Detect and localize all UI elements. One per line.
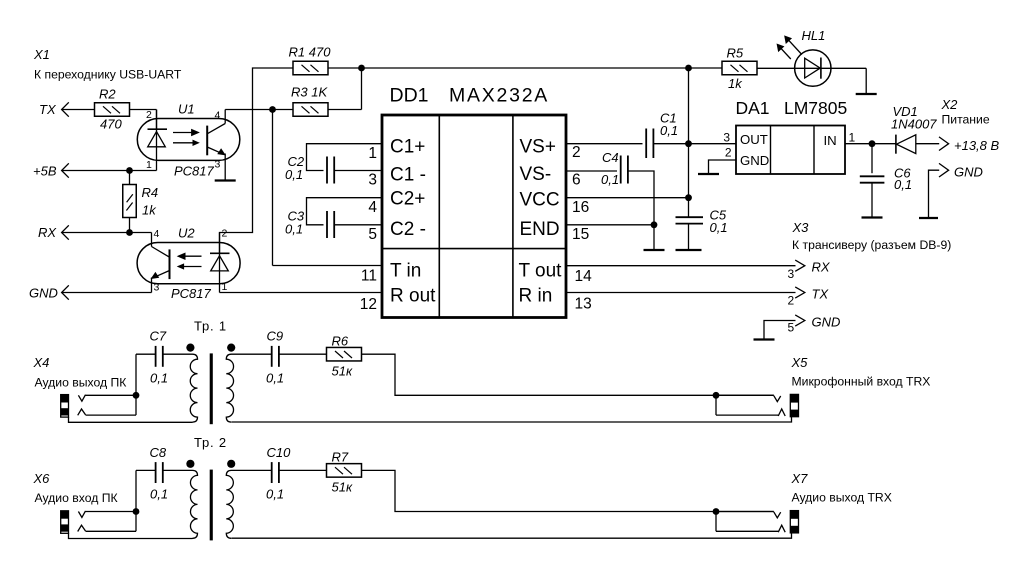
C1 value	[660, 123, 678, 138]
svg-text:Аудио вход ПК: Аудио вход ПК	[35, 491, 119, 505]
wire R5 to HL1	[757, 67, 866, 69]
X5 description	[792, 375, 931, 389]
resistor R7	[327, 464, 362, 478]
svg-text:VS-: VS-	[520, 164, 552, 185]
wire U1 pin4 to R3	[225, 109, 293, 111]
LED HL1	[795, 50, 831, 86]
svg-text:1: 1	[368, 145, 377, 162]
node GND arrow	[62, 285, 69, 299]
wire C3 to DD1 pin5	[334, 224, 381, 226]
svg-text:C4: C4	[602, 150, 619, 165]
svg-text:0,1: 0,1	[150, 371, 168, 386]
svg-text:Питание: Питание	[942, 113, 990, 127]
wire R1 junction down to R3	[328, 68, 362, 110]
U2 pin4 number	[154, 228, 160, 240]
svg-text:U2: U2	[178, 226, 195, 241]
wire DD1 pin6 to C4	[566, 170, 617, 172]
optocoupler U1 body	[137, 119, 240, 161]
DD1 pin12 number	[360, 296, 377, 313]
svg-text:TX: TX	[39, 102, 57, 117]
svg-text:X1: X1	[33, 47, 50, 62]
connector X1 label	[33, 47, 50, 62]
node R3 left junction	[269, 106, 276, 113]
svg-text:Тр. 1: Тр. 1	[194, 319, 227, 334]
wire R1 left to U2 pin2	[220, 68, 294, 253]
DD1 pin6 number	[572, 172, 581, 189]
wire jack to C7	[136, 354, 156, 395]
capacitor C3	[327, 211, 334, 238]
svg-text:0,1: 0,1	[150, 487, 168, 502]
R3 label	[291, 85, 328, 100]
C5 value	[710, 220, 728, 235]
transformer Тр. 1 primary	[163, 354, 198, 422]
svg-text:GND: GND	[954, 165, 983, 180]
IC DA1 title	[736, 98, 848, 118]
node R1-R3 junction	[358, 65, 365, 72]
wire jack to C8	[136, 470, 156, 511]
wire C10 to R7	[279, 469, 327, 471]
DA1 pin1 number	[849, 131, 856, 145]
svg-text:X3: X3	[792, 220, 810, 235]
DD1 pin5 number	[368, 226, 377, 243]
DD1 pin2 number	[572, 144, 581, 161]
resistor R1	[293, 61, 328, 75]
R5 label	[727, 46, 744, 61]
transformer Тр. 2 secondary	[226, 470, 271, 538]
wire DD1 pin16 to VCC node	[566, 197, 689, 199]
svg-text:470: 470	[100, 117, 122, 132]
resistor R2	[95, 103, 130, 117]
R1 label	[289, 45, 332, 60]
node X3 RX arrow	[795, 260, 805, 271]
capacitor C8	[156, 462, 163, 483]
connector X3 label	[792, 220, 810, 235]
DA1 pin2 number	[725, 146, 732, 160]
DD1 pin3 number	[368, 172, 377, 189]
wire C4 to END node	[628, 171, 654, 225]
wire RX to U2 pin4	[62, 233, 152, 247]
wire C2 to DD1 pin3	[334, 170, 381, 172]
svg-text:DD1: DD1	[390, 85, 429, 107]
svg-text:Аудио выход ПК: Аудио выход ПК	[35, 375, 128, 389]
X6 description	[35, 491, 119, 505]
VD1 value 1N4007	[891, 117, 937, 132]
resistor R6	[327, 347, 362, 361]
DD1 label T in	[390, 261, 421, 282]
R2 label	[99, 87, 116, 102]
svg-text:T in: T in	[390, 261, 421, 282]
svg-text:C8: C8	[150, 445, 167, 460]
X2 GND wire	[919, 170, 939, 218]
svg-text:2: 2	[788, 294, 795, 308]
ground under C4	[644, 225, 665, 250]
svg-text:6: 6	[572, 172, 581, 189]
svg-text:R out: R out	[390, 286, 436, 307]
HL1 light arrows	[777, 36, 802, 59]
svg-text:HL1: HL1	[802, 28, 826, 43]
svg-text:GND: GND	[29, 286, 58, 301]
DD1 label C1-	[390, 165, 426, 186]
svg-text:PC817: PC817	[174, 164, 215, 179]
svg-text:3: 3	[788, 267, 795, 281]
X3 GND pin5	[788, 321, 795, 335]
node +5B R4 junction	[126, 167, 133, 174]
R6 label	[332, 334, 349, 349]
node X3 TX arrow	[795, 287, 805, 298]
Тр. 2 core	[210, 470, 213, 541]
svg-text:MAX232A: MAX232A	[449, 85, 549, 107]
DD1 label VS-	[520, 164, 552, 185]
svg-text:1: 1	[146, 159, 152, 171]
svg-text:14: 14	[575, 268, 593, 285]
DD1 pin14 number	[575, 268, 593, 285]
svg-text:X6: X6	[33, 471, 51, 486]
U1 PC817 label	[174, 164, 215, 179]
DD1 pin4 number	[368, 199, 377, 216]
svg-text:5: 5	[368, 226, 377, 243]
R6 value	[332, 364, 353, 379]
svg-text:15: 15	[572, 226, 589, 243]
RX label	[38, 225, 57, 240]
wire DD1 pin13 to X3 TX	[566, 292, 796, 294]
Тр. 2 secondary dot	[227, 460, 235, 468]
svg-text:16: 16	[572, 199, 589, 216]
U1 pin3 number	[215, 159, 221, 171]
capacitor C4	[621, 156, 628, 184]
+13.8V label	[954, 138, 1000, 153]
svg-text:R in: R in	[519, 286, 553, 307]
node X4 tip junction	[133, 392, 140, 399]
ground under U1 pin3	[215, 179, 236, 181]
C4 value	[601, 172, 619, 187]
svg-text:VS+: VS+	[520, 137, 556, 158]
diode VD1	[896, 135, 939, 154]
C2 value	[285, 167, 303, 182]
svg-text:0,1: 0,1	[285, 222, 303, 237]
wire DD1 pin4 elbow	[307, 198, 382, 225]
svg-text:T out: T out	[519, 261, 563, 282]
resistor R5	[722, 61, 757, 75]
svg-text:RX: RX	[38, 225, 57, 240]
Тр. 1 secondary dot	[227, 344, 235, 352]
X4 description	[35, 375, 128, 389]
svg-text:1N4007: 1N4007	[891, 117, 937, 132]
svg-text:2: 2	[572, 144, 581, 161]
svg-text:OUT: OUT	[740, 132, 768, 147]
svg-text:LM7805: LM7805	[784, 98, 847, 118]
DA1 GND pin wire	[698, 160, 736, 174]
U1 LED	[148, 110, 168, 171]
svg-text:RX: RX	[812, 260, 831, 275]
C3 value	[285, 222, 303, 237]
C1 label	[660, 111, 677, 126]
svg-text:51к: 51к	[332, 480, 353, 495]
svg-text:0,1: 0,1	[601, 172, 619, 187]
IC DD1 title	[390, 85, 550, 107]
X3 TX label	[812, 287, 830, 302]
svg-text:R6: R6	[332, 334, 349, 349]
X2 GND label	[954, 165, 983, 180]
X7 description	[792, 490, 892, 504]
wire DD1 pin1 elbow	[307, 144, 382, 171]
wire C9 to R6	[279, 353, 327, 355]
wire DD1 pin15 END	[566, 224, 654, 226]
svg-text:0,1: 0,1	[660, 123, 678, 138]
capacitor C1	[646, 129, 653, 159]
wire +5B to U1 pin1	[62, 170, 157, 172]
U1 pin1 number	[146, 159, 152, 171]
DA1 label GND	[740, 153, 769, 168]
svg-text:1: 1	[849, 131, 856, 145]
svg-text:+5B: +5B	[33, 164, 57, 179]
resistor R3	[293, 103, 328, 117]
DD1 pin13 number	[575, 296, 592, 313]
svg-text:X7: X7	[791, 471, 809, 486]
node +5B arrow	[62, 163, 69, 177]
U2 phototransistor	[152, 247, 170, 293]
IC DA1 body	[736, 126, 845, 175]
DD1 label VCC	[520, 190, 560, 211]
capacitor C6	[860, 144, 885, 218]
svg-text:PC817: PC817	[171, 286, 212, 301]
X3 description	[792, 238, 951, 252]
capacitor C7	[156, 346, 163, 367]
connector X6 label	[33, 471, 51, 486]
wire VCC vertical	[688, 68, 690, 217]
svg-text:X4: X4	[33, 355, 50, 370]
wire R2 to U1 pin2	[130, 110, 157, 130]
node TX arrow	[62, 102, 69, 116]
optocoupler U2 body	[137, 243, 240, 284]
svg-text:0,1: 0,1	[266, 487, 284, 502]
C6 label	[894, 166, 911, 181]
connector X4 label	[33, 355, 50, 370]
DD1 label VS+	[520, 137, 556, 158]
DD1 pin11 number	[361, 268, 377, 285]
GND label	[29, 286, 58, 301]
U2 pin1 number	[222, 281, 228, 293]
X3 RX label	[812, 260, 831, 275]
svg-text:2: 2	[222, 228, 228, 240]
U1 light arrows	[173, 130, 199, 146]
C10 label	[267, 445, 292, 460]
svg-text:1k: 1k	[728, 76, 743, 91]
wire C1 to DA1 OUT	[653, 143, 736, 145]
transformer Тр. 1 secondary	[226, 354, 271, 422]
node R5 branch junction	[685, 65, 692, 72]
X2 description	[942, 113, 990, 127]
svg-text:R1 470: R1 470	[289, 45, 332, 60]
node VCC junction	[685, 194, 692, 201]
svg-text:C9: C9	[267, 329, 284, 344]
C9 value	[266, 371, 284, 386]
svg-text:R3 1K: R3 1K	[291, 85, 328, 100]
svg-text:C1 -: C1 -	[390, 165, 426, 186]
U2 light arrows	[178, 253, 202, 269]
node VS+ junction	[685, 140, 692, 147]
svg-text:13: 13	[575, 296, 592, 313]
node END junction	[651, 221, 658, 228]
VD1 label	[893, 104, 918, 119]
ground after HL1	[856, 68, 877, 94]
C2 label	[288, 154, 305, 169]
wire R1 right	[328, 67, 722, 69]
node +13.8V arrow	[939, 137, 949, 151]
C9 label	[267, 329, 284, 344]
svg-text:DA1: DA1	[736, 98, 770, 118]
capacitor C5	[676, 217, 704, 223]
svg-text:C2 -: C2 -	[390, 219, 426, 240]
svg-text:4: 4	[154, 228, 160, 240]
wire DA1 IN to VD1	[845, 143, 896, 145]
capacitor C9	[272, 346, 279, 367]
Тр. 1 primary dot	[186, 344, 194, 352]
C4 label	[602, 150, 619, 165]
U1 label	[178, 102, 195, 117]
ground under C6	[862, 216, 883, 218]
U2 LED	[210, 233, 230, 293]
svg-text:0,1: 0,1	[285, 167, 303, 182]
node X5 tip junction	[713, 392, 720, 399]
X3 TX pin2	[788, 294, 795, 308]
wire R7 to jack	[362, 470, 774, 511]
transformer Тр. 2 primary	[163, 470, 198, 538]
R2 value 470	[100, 117, 122, 132]
Тр. 1 core	[210, 353, 213, 424]
DA1 pin3 number	[723, 131, 730, 145]
resistor R4	[123, 171, 137, 233]
C10 value	[266, 487, 284, 502]
svg-text:К переходнику USB-UART: К переходнику USB-UART	[34, 68, 182, 82]
DD1 pin15 number	[572, 226, 589, 243]
node X7 tip junction	[713, 508, 720, 515]
wire junction to DD1 pin11	[273, 110, 382, 266]
U1 pin4 number	[215, 110, 221, 122]
R4 value 1k	[142, 203, 157, 218]
DD1 label C2+	[390, 189, 425, 210]
wire U2 pin1 to DD1 pin12	[220, 292, 382, 294]
DD1 pin1 number	[368, 145, 377, 162]
svg-text:4: 4	[368, 199, 377, 216]
U1 phototransistor	[207, 110, 225, 181]
svg-text:Аудио выход TRX: Аудио выход TRX	[792, 490, 892, 504]
capacitor C2	[327, 157, 334, 184]
svg-text:4: 4	[215, 110, 221, 122]
node X3 GND arrow	[795, 315, 805, 326]
Тр. 1 label	[194, 319, 227, 334]
DA1 label IN	[824, 133, 837, 148]
X3 GND wire	[754, 321, 796, 340]
svg-text:TX: TX	[812, 287, 830, 302]
C3 label	[288, 209, 305, 224]
wire GND to U2 pin3	[62, 292, 152, 294]
C8 value	[150, 487, 168, 502]
HL1 label	[802, 28, 826, 43]
node RX R4 junction	[126, 229, 133, 236]
svg-text:R7: R7	[332, 450, 349, 465]
svg-text:Тр. 2: Тр. 2	[194, 435, 227, 450]
node IN junction	[869, 140, 876, 147]
X3 RX pin3	[788, 267, 795, 281]
X1 description	[34, 68, 182, 82]
svg-text:12: 12	[360, 296, 377, 313]
+5B label	[33, 164, 57, 179]
C8 label	[150, 445, 167, 460]
wire TX to R2	[62, 109, 95, 111]
U1 pin2 number	[146, 109, 152, 121]
connector X6 jack	[61, 511, 193, 539]
U2 PC817 label	[171, 286, 212, 301]
svg-text:1: 1	[222, 281, 228, 293]
svg-text:11: 11	[361, 268, 377, 285]
wire DD1 pin14 to X3 RX	[566, 265, 796, 267]
U2 pin3 number	[154, 282, 160, 294]
svg-text:+13,8 В: +13,8 В	[954, 138, 1000, 153]
R7 value	[332, 480, 353, 495]
svg-text:U1: U1	[178, 102, 195, 117]
C6 value	[894, 177, 912, 192]
DD1 label R in	[519, 286, 553, 307]
svg-text:1k: 1k	[142, 203, 157, 218]
R5 value 1k	[728, 76, 743, 91]
svg-text:3: 3	[215, 159, 221, 171]
svg-text:3: 3	[154, 282, 160, 294]
Тр. 2 primary dot	[186, 460, 194, 468]
connector X7 label	[791, 471, 809, 486]
svg-text:2: 2	[725, 146, 732, 160]
svg-text:C10: C10	[267, 445, 292, 460]
svg-text:0,1: 0,1	[710, 220, 728, 235]
svg-text:0,1: 0,1	[266, 371, 284, 386]
svg-text:VCC: VCC	[520, 190, 560, 211]
DD1 label C2-	[390, 219, 426, 240]
node X2 GND arrow	[939, 163, 949, 177]
connector X7 jack	[232, 511, 799, 539]
svg-text:C7: C7	[150, 329, 167, 344]
R7 label	[332, 450, 349, 465]
svg-text:Микрофонный вход TRX: Микрофонный вход TRX	[792, 375, 931, 389]
wire DD1 pin2 to C1	[566, 143, 643, 145]
svg-text:GND: GND	[812, 315, 841, 330]
svg-text:К трансиверу (разъем DB-9): К трансиверу (разъем DB-9)	[792, 238, 951, 252]
svg-text:0,1: 0,1	[894, 177, 912, 192]
Тр. 2 label	[194, 435, 227, 450]
svg-text:3: 3	[723, 131, 730, 145]
DD1 label C1+	[390, 137, 425, 158]
node X6 tip junction	[133, 508, 140, 515]
svg-text:2: 2	[146, 109, 152, 121]
DD1 label END	[520, 219, 560, 240]
svg-text:C2+: C2+	[390, 189, 425, 210]
C7 label	[150, 329, 167, 344]
svg-text:GND: GND	[740, 153, 769, 168]
svg-text:X2: X2	[941, 97, 959, 112]
svg-text:X5: X5	[791, 355, 809, 370]
C7 value	[150, 371, 168, 386]
svg-text:R4: R4	[142, 185, 159, 200]
svg-text:END: END	[520, 219, 560, 240]
connector X5 jack	[232, 394, 799, 422]
U2 label	[178, 226, 195, 241]
DD1 label R out	[390, 286, 436, 307]
svg-text:IN: IN	[824, 133, 837, 148]
wire R6 to jack	[362, 354, 774, 395]
IC DD1 body	[382, 115, 566, 318]
connector X2 label	[941, 97, 959, 112]
DD1 label T out	[519, 261, 563, 282]
svg-text:C1+: C1+	[390, 137, 425, 158]
svg-text:R5: R5	[727, 46, 744, 61]
